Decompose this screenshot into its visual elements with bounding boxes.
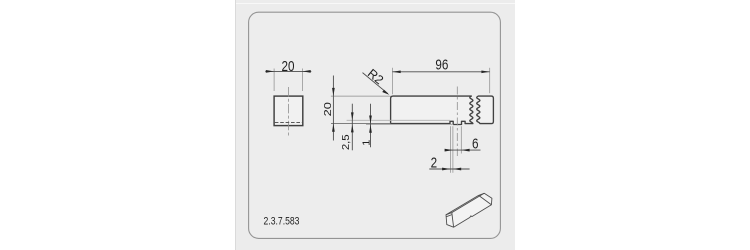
isometric far top width edge [479,193,485,195]
dimension 1 (tab height) [361,104,373,148]
svg-text:96: 96 [435,56,448,73]
dimension 20 vertical (bar height) [323,76,335,141]
R2 leader [363,66,390,95]
isometric near right vertical edge [452,213,454,228]
dimension 2 (notch width) [429,154,469,171]
tab bottom line B [366,124,453,126]
extension line notch left [449,126,451,173]
bottom edge extension line [331,123,391,125]
dimension 20 (end view width) [265,58,311,91]
bar body right end piece [477,96,494,124]
catalog column strip [235,0,515,250]
isometric end face top edge [446,215,452,217]
groove depth line A [347,119,450,121]
svg-text:6: 6 [472,135,479,152]
dimension 6 (tab width) [445,135,481,152]
svg-text:2,5: 2,5 [340,134,352,150]
svg-text:1: 1 [361,140,373,146]
panel frame [249,12,501,238]
extension line tab right [460,126,462,153]
main view centerline [456,87,458,157]
dimension 2,5 (groove depth) [340,104,353,151]
dimension 96 (bar length) [392,56,489,94]
end view centerline [287,87,289,136]
isometric part silhouette [446,193,492,227]
svg-text:20: 20 [323,102,333,116]
svg-text:20: 20 [281,58,294,75]
end view square [274,96,303,126]
isometric front top edge [446,195,479,214]
top edge extension line [331,95,391,97]
strip top highlight line [236,3,515,4]
isometric far end lower edge [479,195,492,204]
extension line notch right / tab left [452,126,454,173]
hidden groove line (end view) [275,122,302,124]
bar body left portion [391,96,473,124]
svg-text:2: 2 [431,154,438,171]
svg-text:2.3.7.583: 2.3.7.583 [264,216,300,228]
